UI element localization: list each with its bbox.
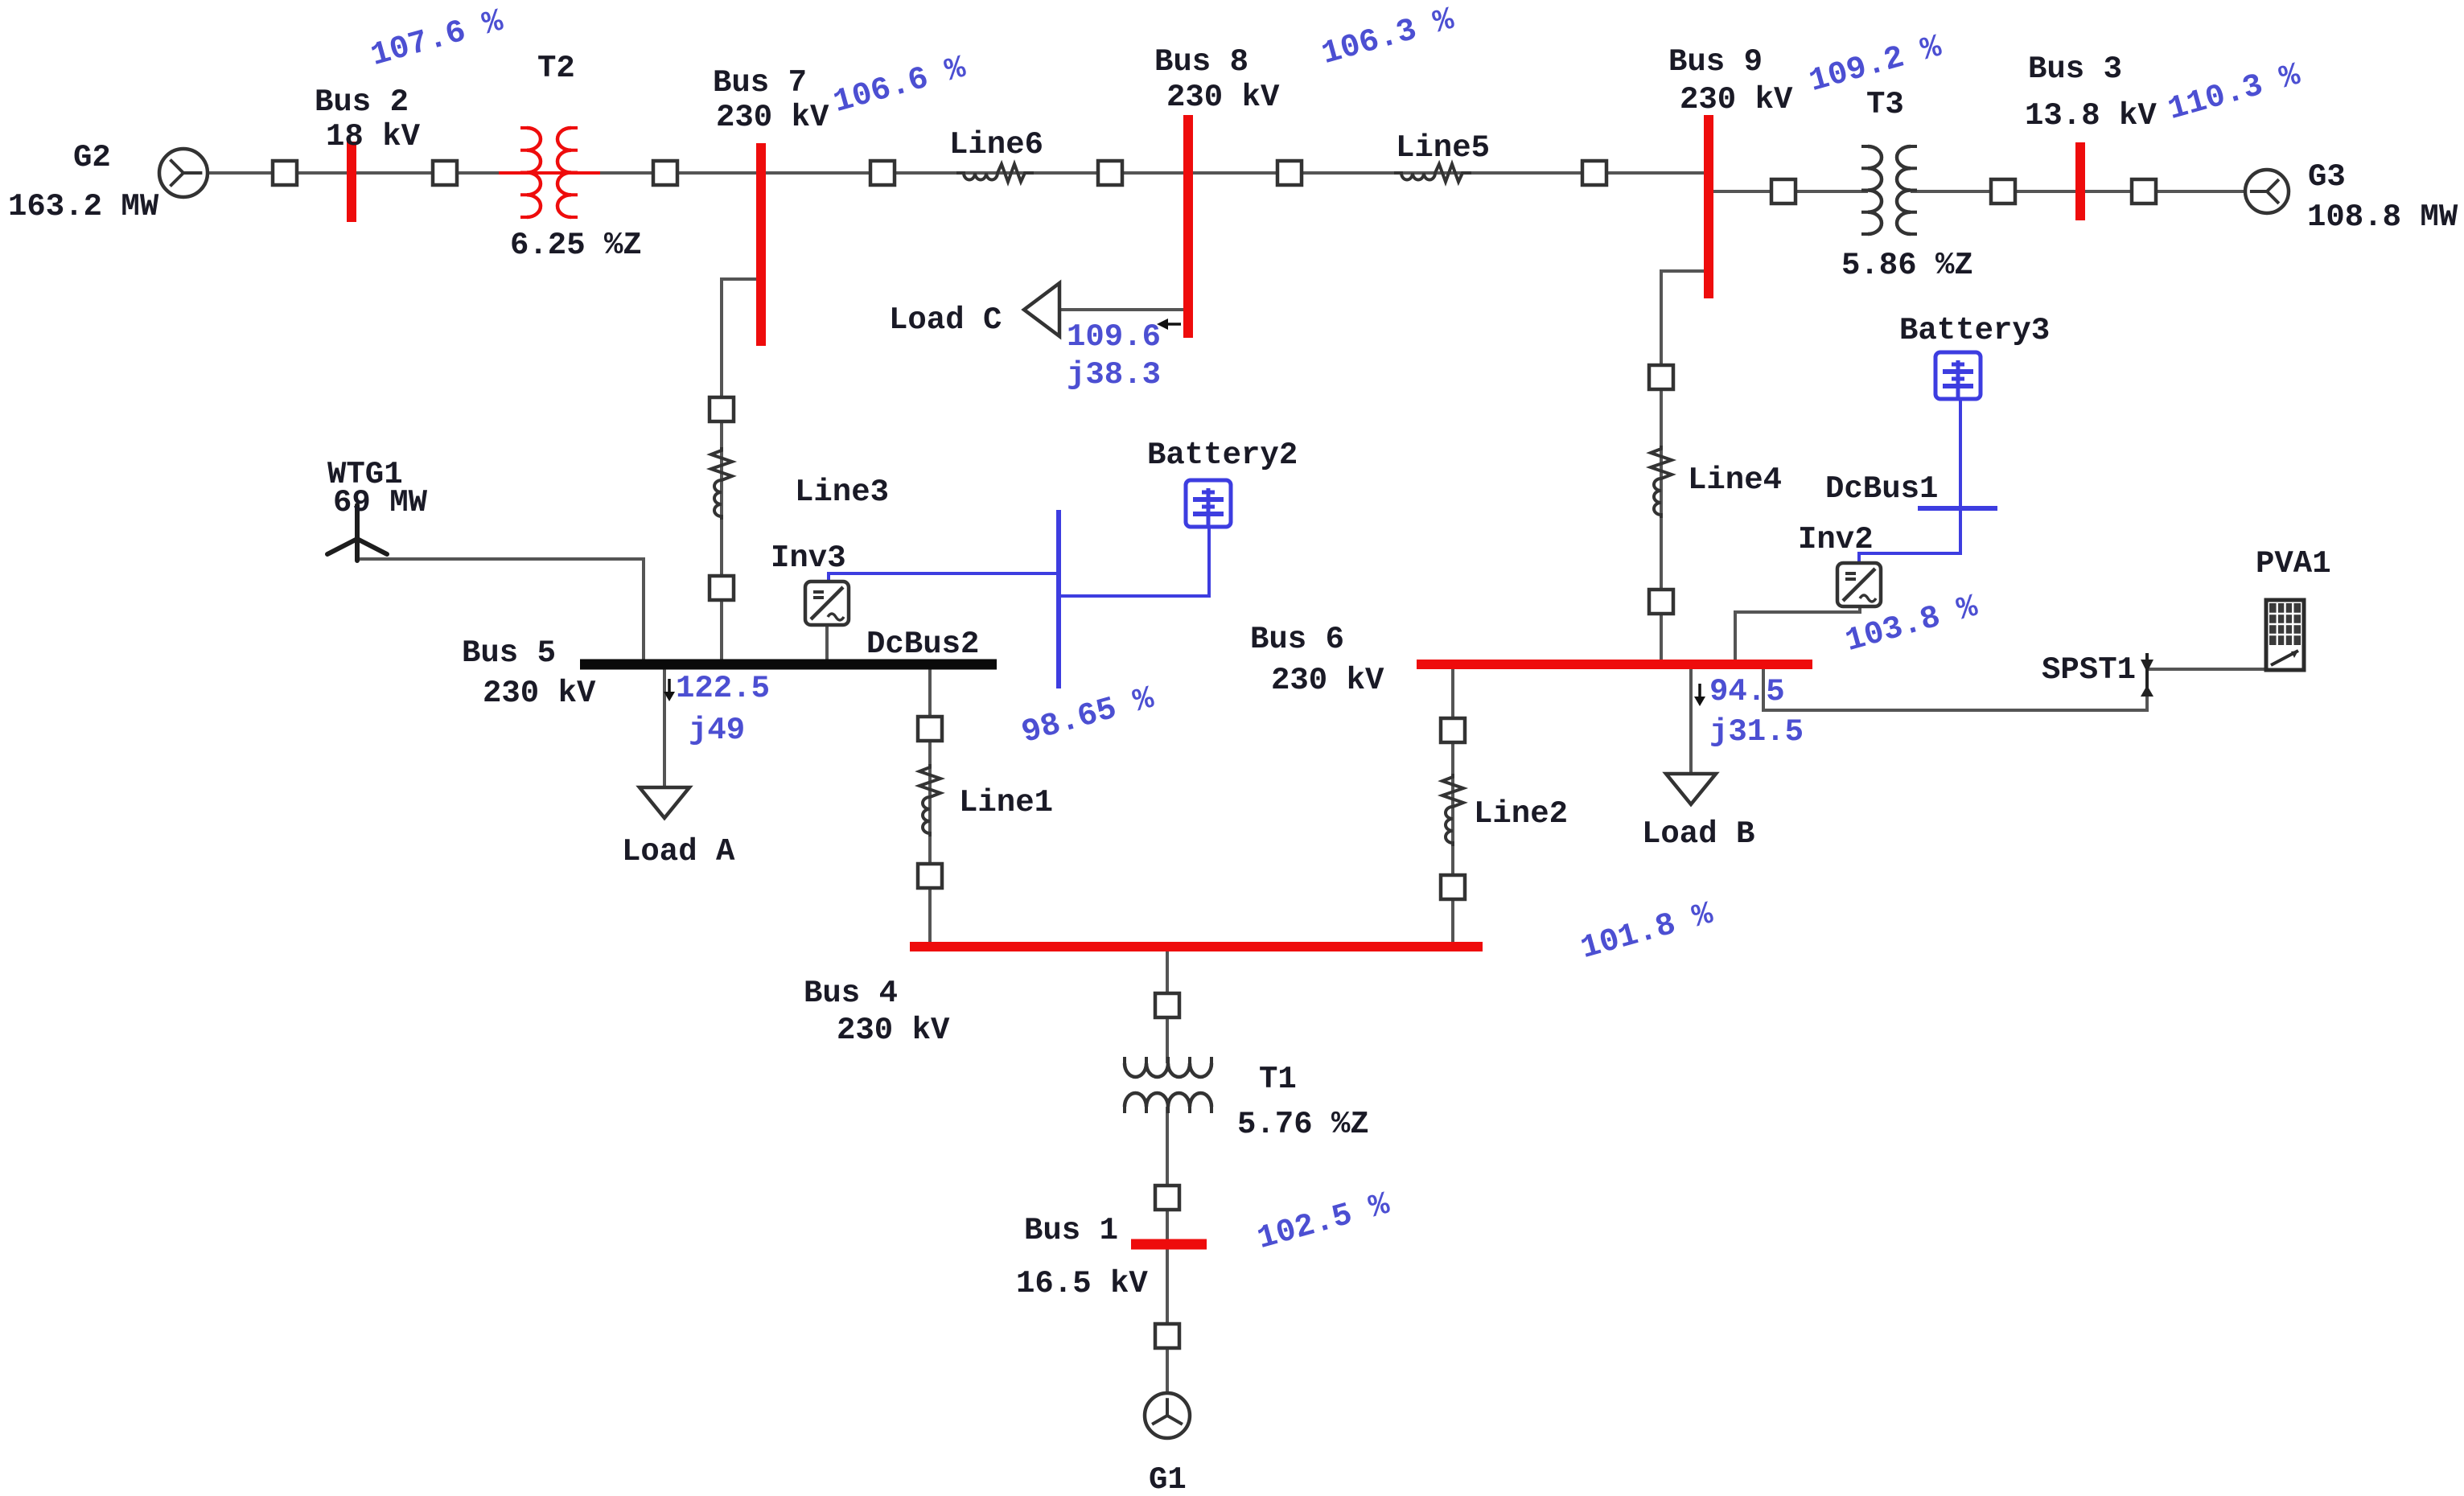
label Bus 3 bbox=[2028, 51, 2122, 87]
inverter Inv3 bbox=[805, 582, 849, 625]
generator G1 bbox=[1145, 1393, 1190, 1438]
generator G3 bbox=[2245, 170, 2289, 213]
wire Line1 Bus5 to Bus4 bbox=[928, 666, 932, 947]
battery Battery3 bbox=[1935, 352, 1981, 399]
svg-text:Bus 2: Bus 2 bbox=[315, 84, 409, 120]
svg-text:230 kV: 230 kV bbox=[483, 676, 596, 711]
svg-text:Battery3: Battery3 bbox=[1899, 313, 2050, 348]
label Inv2 bbox=[1798, 522, 1874, 557]
wind turbine WTG1 bbox=[327, 505, 387, 561]
line Line4 symbol bbox=[1651, 446, 1672, 518]
transformer T1 bbox=[1125, 1057, 1211, 1113]
label G2 MW bbox=[8, 189, 159, 224]
label Line1 bbox=[959, 785, 1053, 820]
transformer T2 (red coils) bbox=[520, 128, 578, 217]
svg-text:T3: T3 bbox=[1866, 87, 1904, 122]
bus Bus 5 (230 kV) bbox=[580, 660, 997, 670]
wire DcBus2 to Battery2 (dc) bbox=[1059, 527, 1209, 596]
svg-text:Inv2: Inv2 bbox=[1798, 522, 1874, 557]
wire Bus9 jog to Line4 bbox=[1661, 271, 1709, 664]
label Bus 9 kV bbox=[1680, 82, 1793, 117]
breaker CB Bus9-T3 bbox=[1771, 179, 1796, 203]
label WTG1 bbox=[327, 457, 403, 492]
bus Bus 9 (230 kV) bbox=[1704, 115, 1713, 298]
svg-text:16.5 kV: 16.5 kV bbox=[1016, 1266, 1148, 1301]
wire Load C to Bus 8 bbox=[1059, 308, 1188, 311]
svg-text:Line2: Line2 bbox=[1474, 796, 1568, 832]
svg-text:Load A: Load A bbox=[622, 834, 735, 869]
svg-text:230 kV: 230 kV bbox=[1166, 80, 1280, 115]
label PVA1 bbox=[2256, 546, 2331, 582]
svg-text:Line6: Line6 bbox=[949, 127, 1043, 162]
label T1 bbox=[1259, 1062, 1297, 1097]
label T2 bbox=[537, 51, 575, 86]
label voltage 103.8% (Bus 6) bbox=[1841, 589, 1982, 660]
label DcBus1 bbox=[1825, 471, 1938, 507]
wire Inv3 to DcBus2 (dc) bbox=[829, 573, 1059, 582]
bus Bus 7 (230 kV) bbox=[756, 143, 766, 346]
breaker CB Bus7 side Line3 bbox=[710, 397, 734, 421]
label Bus 8 bbox=[1154, 44, 1248, 80]
svg-text:122.5: 122.5 bbox=[676, 671, 770, 706]
line Line6 symbol bbox=[956, 164, 1034, 182]
svg-text:SPST1: SPST1 bbox=[2042, 652, 2136, 688]
label Bus 3 kV bbox=[2025, 98, 2157, 134]
wire Inv2 to Bus 6 bbox=[1735, 607, 1860, 664]
line Line1 symbol bbox=[919, 764, 940, 836]
load Load B arrow bbox=[1666, 774, 1716, 804]
label G3 bbox=[2308, 159, 2346, 195]
breaker CB Line3-Bus5 bbox=[710, 576, 734, 600]
svg-text:Load C: Load C bbox=[889, 302, 1002, 338]
wire WTG1 to Bus 5 bbox=[357, 559, 644, 664]
wire T2 red stubs bbox=[499, 171, 600, 175]
label Bus 7 kV bbox=[716, 100, 829, 135]
bus Bus 1 (16.5 kV) bbox=[1131, 1239, 1207, 1250]
label T3 impedance bbox=[1841, 248, 1973, 283]
bus Bus 8 (230 kV) bbox=[1183, 115, 1193, 338]
label SPST1 bbox=[2042, 652, 2136, 688]
label Line6 bbox=[949, 127, 1043, 162]
svg-text:230 kV: 230 kV bbox=[837, 1013, 950, 1048]
svg-text:5.76 %Z: 5.76 %Z bbox=[1237, 1107, 1369, 1142]
svg-text:108.8 MW: 108.8 MW bbox=[2307, 199, 2458, 235]
label WTG1 MW bbox=[333, 485, 428, 520]
battery Battery2 bbox=[1186, 480, 1231, 527]
label Load C bbox=[889, 302, 1002, 338]
svg-text:Line5: Line5 bbox=[1396, 130, 1490, 166]
svg-text:T1: T1 bbox=[1259, 1062, 1297, 1097]
svg-text:94.5: 94.5 bbox=[1709, 674, 1785, 709]
svg-text:Line3: Line3 bbox=[795, 475, 889, 510]
svg-text:Battery2: Battery2 bbox=[1147, 438, 1298, 473]
label Bus 5 bbox=[462, 635, 556, 671]
svg-text:G2: G2 bbox=[73, 140, 111, 175]
label voltage 110.3% (Bus 3) bbox=[2164, 57, 2305, 129]
svg-text:Bus 9: Bus 9 bbox=[1668, 44, 1763, 80]
label voltage 106.3% (Bus 8) bbox=[1318, 2, 1458, 73]
svg-text:230 kV: 230 kV bbox=[1680, 82, 1793, 117]
label Line2 bbox=[1474, 796, 1568, 832]
label Bus 2 kV bbox=[326, 119, 421, 154]
svg-text:DcBus2: DcBus2 bbox=[866, 627, 979, 662]
wire Bus6 to SPST1 return bbox=[1763, 666, 2147, 710]
svg-text:Bus 1: Bus 1 bbox=[1024, 1213, 1118, 1248]
label Line3 bbox=[795, 475, 889, 510]
breaker CB Bus2-T2 bbox=[433, 161, 457, 185]
svg-text:j49: j49 bbox=[689, 713, 745, 748]
svg-text:163.2 MW: 163.2 MW bbox=[8, 189, 159, 224]
breaker CB G2-Bus2 bbox=[273, 161, 297, 185]
label G3 MW bbox=[2307, 199, 2458, 235]
arrow load direction at Bus5 bbox=[664, 679, 675, 701]
svg-text:230 kV: 230 kV bbox=[1271, 663, 1384, 698]
bus Bus 3 (13.8 kV) bbox=[2075, 142, 2085, 220]
svg-text:18 kV: 18 kV bbox=[326, 119, 421, 154]
svg-text:Line1: Line1 bbox=[959, 785, 1053, 820]
label voltage 101.8% (Bus 4) bbox=[1577, 896, 1717, 968]
label Bus 9 bbox=[1668, 44, 1763, 80]
svg-text:G1: G1 bbox=[1149, 1462, 1187, 1496]
wire Line2 Bus6 to Bus4 bbox=[1451, 666, 1454, 947]
svg-text:69 MW: 69 MW bbox=[333, 485, 428, 520]
breaker CB Bus1-G1 bbox=[1155, 1324, 1179, 1348]
label Line4 bbox=[1688, 462, 1782, 498]
svg-text:Bus 6: Bus 6 bbox=[1250, 622, 1344, 657]
label Bus 6 bbox=[1250, 622, 1344, 657]
wire Battery3 to DcBus1 to Inv2 (dc) bbox=[1859, 399, 1960, 563]
label Bus 5 kV bbox=[483, 676, 596, 711]
svg-text:Bus 7: Bus 7 bbox=[713, 65, 807, 101]
switch SPST1 bbox=[2141, 653, 2153, 697]
transformer T3 bbox=[1861, 146, 1917, 234]
svg-text:T2: T2 bbox=[537, 51, 575, 86]
wire main 230kV transmission backbone bbox=[208, 171, 1709, 175]
generator G2 bbox=[159, 149, 208, 197]
svg-text:Bus 3: Bus 3 bbox=[2028, 51, 2122, 87]
label Load C flow 109.6 bbox=[1067, 319, 1161, 355]
label Bus 4 bbox=[804, 976, 898, 1011]
svg-text:Load B: Load B bbox=[1642, 816, 1754, 852]
svg-text:PVA1: PVA1 bbox=[2256, 546, 2331, 582]
label Load C flow j38.3 bbox=[1067, 357, 1161, 392]
label G2 bbox=[73, 140, 111, 175]
label voltage 98.65% (DcBus2) bbox=[1018, 680, 1158, 752]
bus DcBus1 (dc bus bar) bbox=[1918, 506, 1997, 511]
wire Inv3 to Bus 5 bbox=[825, 625, 829, 664]
bus Bus 6 (230 kV) bbox=[1417, 660, 1812, 669]
label Bus 8 kV bbox=[1166, 80, 1280, 115]
bus DcBus2 (dc bus bar) bbox=[1056, 510, 1061, 688]
label T3 bbox=[1866, 87, 1904, 122]
label Load A bbox=[622, 834, 735, 869]
line Line2 symbol bbox=[1442, 774, 1463, 846]
svg-text:6.25 %Z: 6.25 %Z bbox=[510, 228, 642, 263]
pv array PVA1 bbox=[2266, 600, 2304, 670]
breaker CB Line5-Bus9 bbox=[1582, 161, 1606, 185]
svg-text:5.86 %Z: 5.86 %Z bbox=[1841, 248, 1973, 283]
label Bus 1 bbox=[1024, 1213, 1118, 1248]
label Bus 7 bbox=[713, 65, 807, 101]
load Load C arrow bbox=[1024, 283, 1059, 336]
svg-text:G3: G3 bbox=[2308, 159, 2346, 195]
breaker CB Line4-Bus6 bbox=[1649, 590, 1673, 614]
breaker CB Bus4-T1 bbox=[1155, 993, 1179, 1017]
svg-text:230 kV: 230 kV bbox=[716, 100, 829, 135]
svg-text:Line4: Line4 bbox=[1688, 462, 1782, 498]
breaker CB Bus6 side Line2 bbox=[1441, 718, 1465, 742]
wire Bus9 to T3 and Bus3 to G3 branch bbox=[1709, 190, 2245, 193]
label Bus 4 kV bbox=[837, 1013, 950, 1048]
label voltage 106.6% (Bus 7) bbox=[829, 50, 970, 121]
breaker CB Bus5 side Line1 bbox=[918, 717, 942, 741]
label G1 bbox=[1149, 1462, 1187, 1496]
breaker CB T1-Bus1 bbox=[1155, 1186, 1179, 1210]
arrow load direction at Bus6 bbox=[1694, 684, 1705, 706]
svg-text:Bus 4: Bus 4 bbox=[804, 976, 898, 1011]
breaker CB Bus3-G3 bbox=[2132, 179, 2156, 203]
bus Bus 2 (18 kV) bbox=[347, 142, 356, 222]
label Bus 2 bbox=[315, 84, 409, 120]
breaker CB T3-Bus3 bbox=[1991, 179, 2015, 203]
label Bus 6 kV bbox=[1271, 663, 1384, 698]
breaker CB Line6-Bus8 bbox=[1098, 161, 1122, 185]
label Line5 bbox=[1396, 130, 1490, 166]
svg-text:Bus 8: Bus 8 bbox=[1154, 44, 1248, 80]
label Bus 1 kV bbox=[1016, 1266, 1148, 1301]
line Line5 symbol bbox=[1394, 164, 1471, 182]
svg-text:j38.3: j38.3 bbox=[1067, 357, 1161, 392]
breaker CB T2-Bus7 bbox=[653, 161, 677, 185]
breaker CB Bus8-Line5 bbox=[1277, 161, 1302, 185]
svg-text:13.8 kV: 13.8 kV bbox=[2025, 98, 2157, 134]
label Bus5 load flow 122.5 bbox=[676, 671, 770, 706]
wire Bus5 to Load A bbox=[663, 666, 666, 787]
breaker CB Line1-Bus4 bbox=[918, 864, 942, 888]
wire Bus6 to Load B bbox=[1689, 666, 1693, 774]
label voltage 107.6% (Bus 2) bbox=[367, 3, 508, 75]
wire Bus7 jog to Line3 bbox=[722, 279, 761, 664]
wire SPST1 to PVA1 bbox=[2147, 668, 2281, 671]
label Battery2 bbox=[1147, 438, 1298, 473]
label Bus6 load flow 94.5 bbox=[1709, 674, 1785, 709]
wire Bus4 to T1 to Bus1 to G1 bbox=[1166, 947, 1169, 1393]
label Inv3 bbox=[771, 540, 846, 576]
bus Bus 4 (230 kV) bbox=[910, 942, 1483, 951]
label voltage 109.2% (Bus 9) bbox=[1805, 29, 1946, 101]
label Bus5 load flow j49 bbox=[689, 713, 745, 748]
line Line3 symbol bbox=[711, 447, 732, 520]
arrow load direction at Load C bbox=[1157, 319, 1181, 330]
svg-text:j31.5: j31.5 bbox=[1709, 714, 1804, 750]
label Battery3 bbox=[1899, 313, 2050, 348]
svg-text:Inv3: Inv3 bbox=[771, 540, 846, 576]
inverter Inv2 bbox=[1837, 563, 1881, 606]
svg-text:109.6: 109.6 bbox=[1067, 319, 1161, 355]
label Load B bbox=[1642, 816, 1754, 852]
load Load A arrow bbox=[640, 787, 689, 818]
breaker CB Bus9 side Line4 bbox=[1649, 365, 1673, 389]
breaker CB Bus7-Line6 bbox=[870, 161, 895, 185]
svg-text:DcBus1: DcBus1 bbox=[1825, 471, 1938, 507]
breaker CB Line2-Bus4 bbox=[1441, 875, 1465, 899]
label T1 impedance bbox=[1237, 1107, 1369, 1142]
label Bus6 load flow j31.5 bbox=[1709, 714, 1804, 750]
label T2 impedance bbox=[510, 228, 642, 263]
label voltage 102.5% (Bus 1) bbox=[1253, 1186, 1394, 1258]
svg-text:Bus 5: Bus 5 bbox=[462, 635, 556, 671]
label DcBus2 bbox=[866, 627, 979, 662]
